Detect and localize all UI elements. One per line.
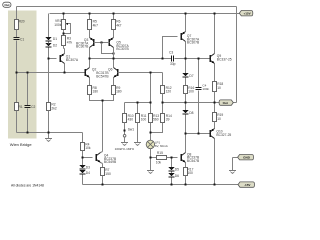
svg-text:All diodes are 1N4148: All diodes are 1N4148 [11, 184, 44, 188]
svg-text:C1: C1 [20, 37, 24, 41]
svg-text:6V, 60mA: 6V, 60mA [155, 144, 168, 148]
svg-text:10k: 10k [85, 146, 91, 150]
svg-text:100: 100 [188, 90, 194, 94]
svg-text:BC547B: BC547B [96, 74, 109, 78]
svg-text:D3: D3 [86, 165, 90, 169]
svg-text:D1: D1 [53, 37, 57, 41]
svg-text:Q6: Q6 [108, 67, 113, 71]
svg-text:10: 10 [217, 86, 221, 90]
svg-text:4k7: 4k7 [116, 23, 121, 27]
svg-text:100: 100 [141, 118, 147, 122]
svg-text:GND: GND [243, 155, 251, 159]
svg-text:BC307A: BC307A [66, 58, 79, 62]
svg-text:BC307B: BC307B [116, 47, 129, 51]
svg-text:100kHz-1MHz: 100kHz-1MHz [115, 147, 135, 151]
svg-text:Out: Out [223, 101, 228, 105]
svg-text:D6: D6 [175, 174, 179, 178]
svg-text:39: 39 [166, 118, 170, 122]
svg-text:D5: D5 [175, 167, 179, 171]
svg-text:Sw1: Sw1 [128, 127, 135, 131]
svg-text:D8: D8 [189, 111, 193, 115]
svg-text:560: 560 [153, 118, 159, 122]
svg-text:430: 430 [128, 118, 134, 122]
svg-text:120: 120 [166, 90, 172, 94]
svg-text:2k2: 2k2 [51, 106, 56, 110]
svg-text:D7: D7 [189, 74, 193, 78]
svg-text:4k7: 4k7 [93, 23, 98, 27]
svg-text:BC307B: BC307B [187, 41, 200, 45]
svg-text:100k: 100k [54, 23, 62, 27]
svg-text:BC547B: BC547B [187, 159, 200, 163]
svg-text:10k: 10k [156, 161, 162, 165]
svg-text:180: 180 [93, 90, 99, 94]
svg-text:D2: D2 [53, 44, 57, 48]
svg-text:BC549B: BC549B [104, 160, 117, 164]
svg-text:R20: R20 [19, 20, 25, 24]
svg-text:R15: R15 [157, 151, 163, 155]
svg-text:10: 10 [217, 117, 221, 121]
svg-text:33p: 33p [170, 62, 176, 66]
svg-text:R1: R1 [19, 105, 23, 109]
svg-text:-15V: -15V [244, 183, 251, 187]
svg-text:100n: 100n [202, 87, 209, 91]
svg-text:150: 150 [105, 172, 111, 176]
svg-text:C3: C3 [169, 50, 173, 54]
svg-text:D4: D4 [86, 171, 90, 175]
svg-text:180: 180 [116, 90, 122, 94]
svg-text:Wien Bridge: Wien Bridge [10, 142, 33, 147]
svg-text:+15V: +15V [243, 11, 251, 15]
svg-text:BC307B: BC307B [76, 45, 89, 49]
svg-text:Out: Out [4, 3, 9, 7]
svg-text:C2: C2 [31, 105, 35, 109]
svg-text:BC327-25: BC327-25 [216, 133, 231, 137]
svg-text:47k: 47k [67, 40, 73, 44]
svg-text:100: 100 [187, 171, 193, 175]
svg-text:BC337-25: BC337-25 [217, 58, 232, 62]
